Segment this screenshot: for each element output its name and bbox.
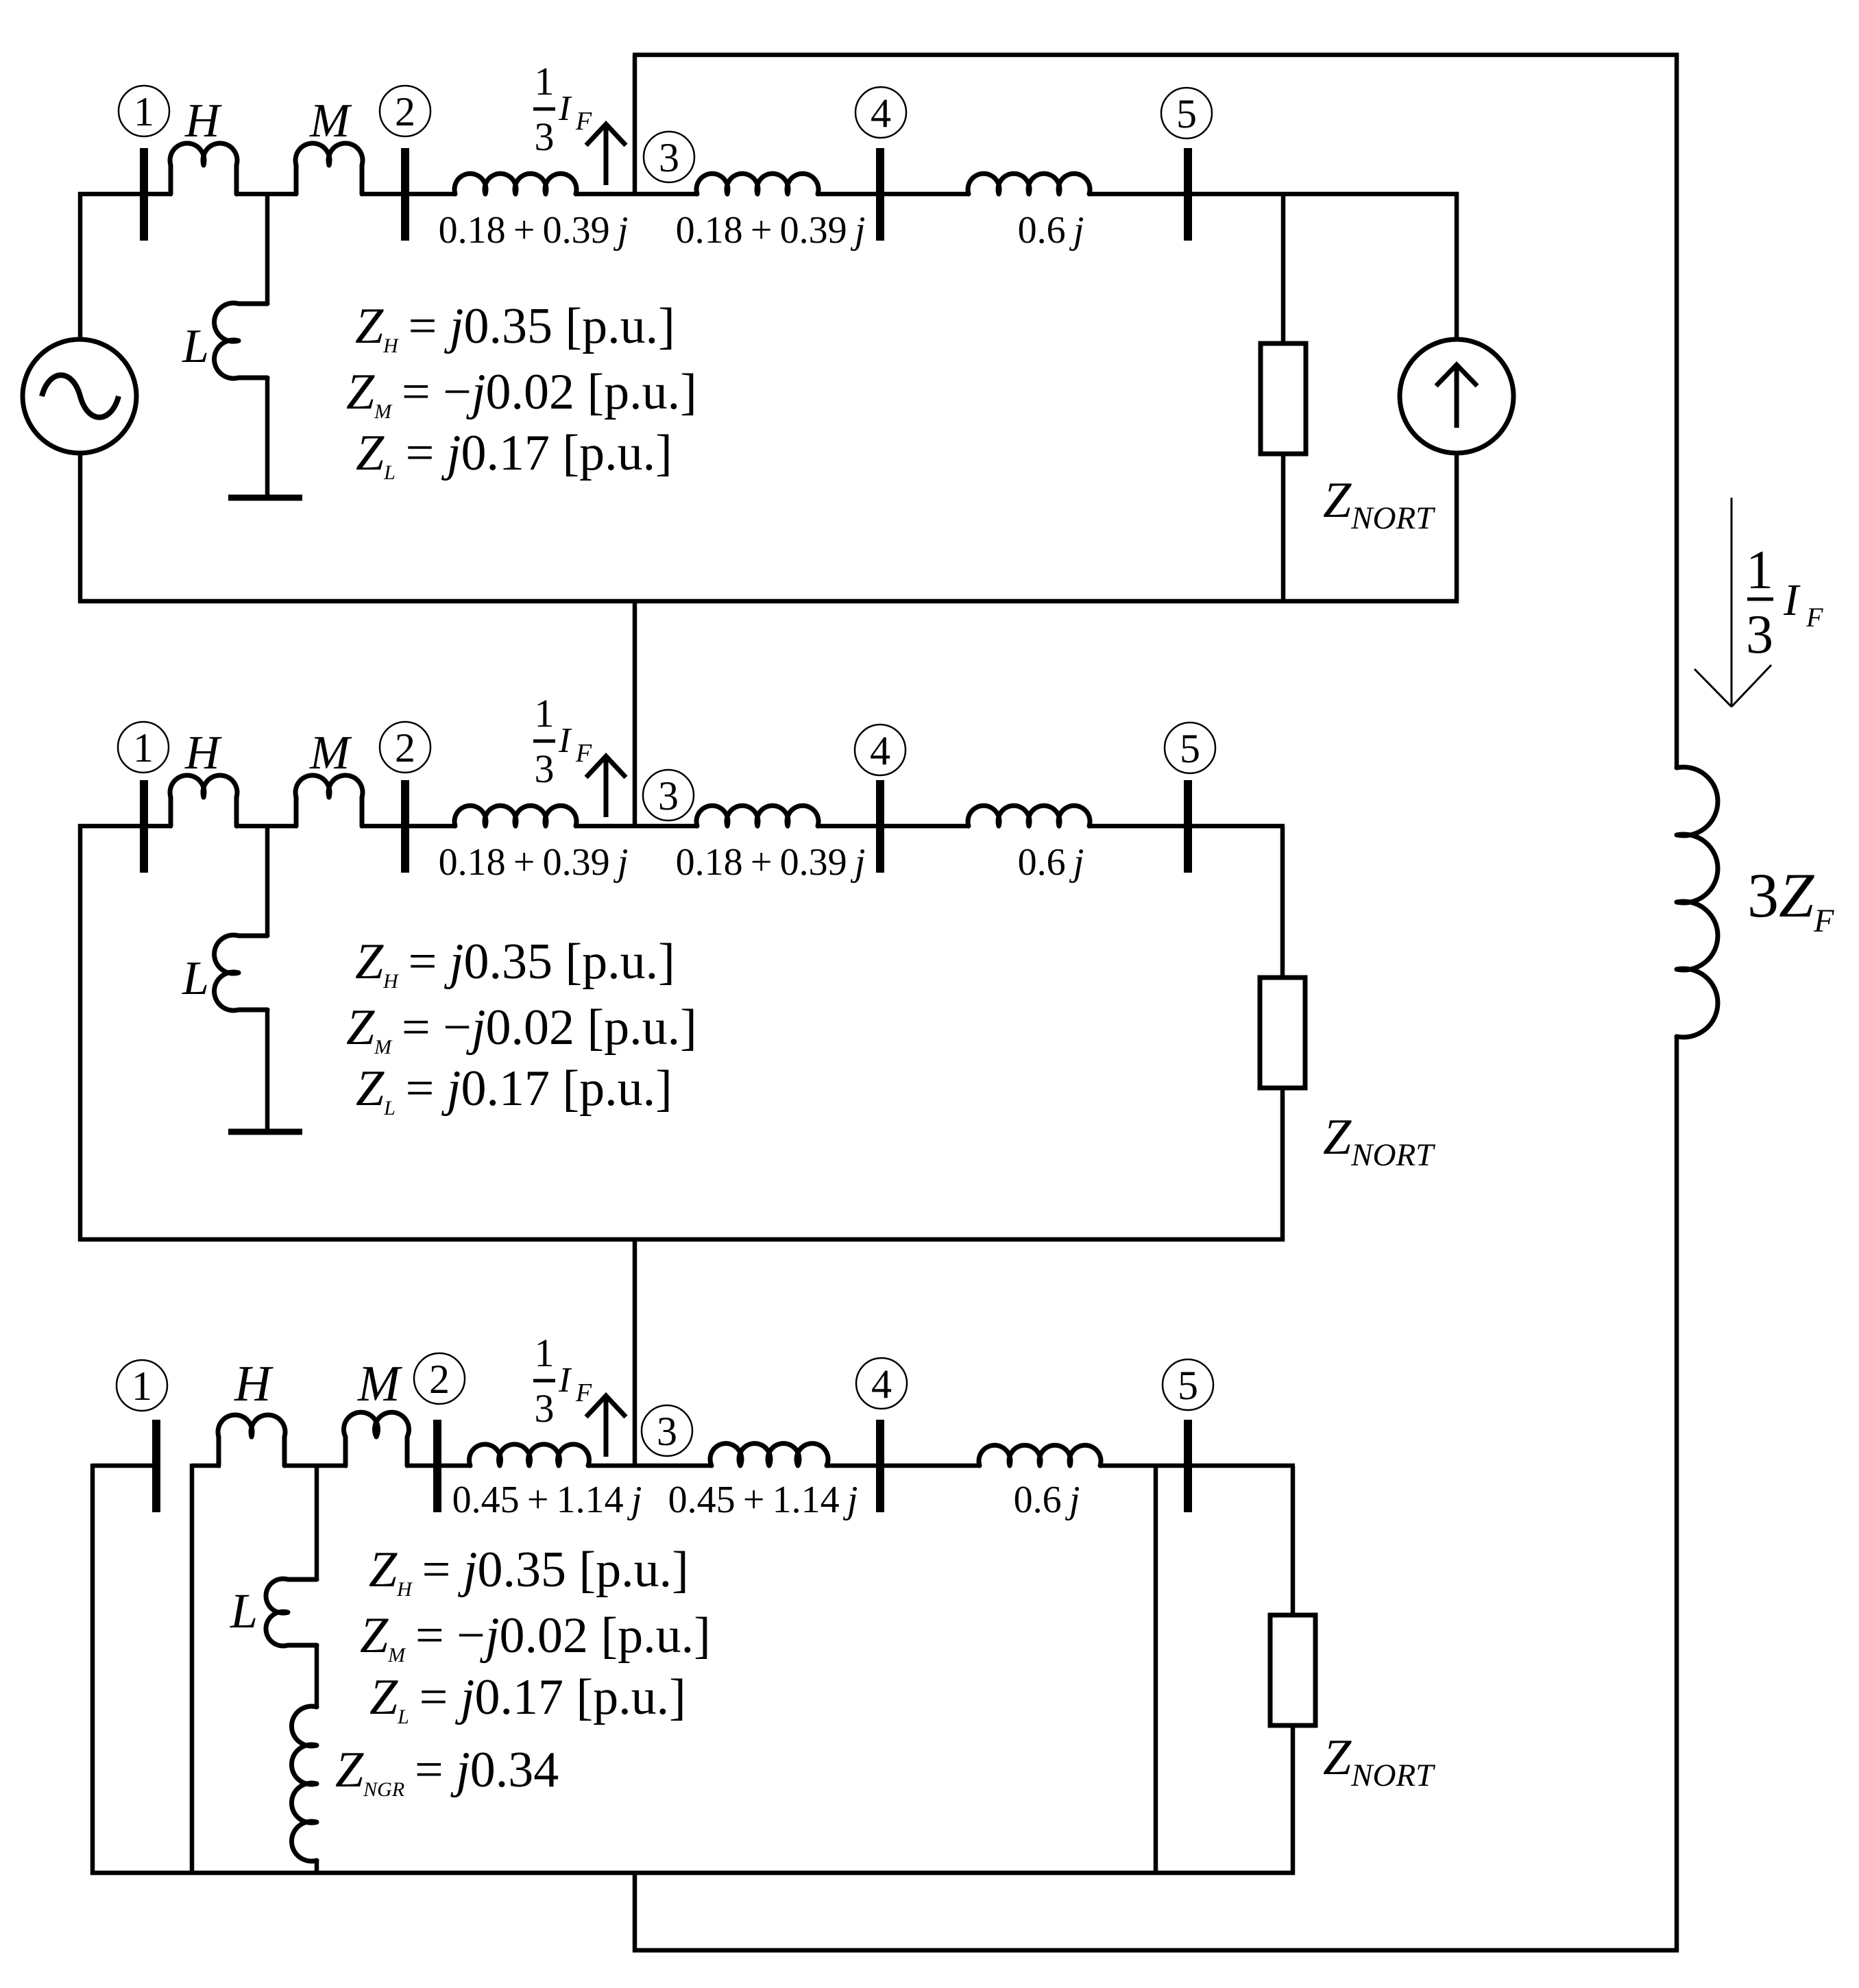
wire: bottom-net bus1 stub (93, 1464, 154, 1468)
bus 5 (top net) (1184, 148, 1192, 241)
wire: top-net right vertical lower (1455, 453, 1459, 603)
wire: fault bus top horizontal (633, 53, 1679, 58)
svg-text:2: 2 (395, 725, 415, 771)
wire: mid-net seg ind-bus5-right (1089, 824, 1285, 829)
svg-text:ZH = j0.35 [p.u.]: ZH = j0.35 [p.u.] (369, 1542, 689, 1601)
inductor line 4-5 (bottom net) 0.6j (979, 1445, 1101, 1466)
node label circled 4 (mid net) (855, 725, 906, 775)
wire: top-net seg ind-bus4-ind (818, 192, 969, 197)
current arrow 1/3 IF (bottom net) (604, 1396, 609, 1457)
svg-text:M: M (309, 727, 352, 779)
node3 link wire top-net to mid-net (633, 601, 637, 828)
wire: bottom-net seg corner-H (192, 1464, 221, 1468)
inductor H (mid net) (170, 775, 237, 826)
inductor line 2-3 (top net) 0.18+0.39j (454, 173, 576, 194)
node label circled 2 (bottom net) (414, 1353, 465, 1404)
bus 2 (bottom net) (433, 1420, 441, 1512)
svg-text:ZH = j0.35 [p.u.]: ZH = j0.35 [p.u.] (355, 298, 675, 357)
svg-text:2: 2 (429, 1357, 450, 1402)
current arrow 1/3 IF (top net) (604, 124, 609, 185)
svg-text:I: I (1783, 575, 1801, 625)
svg-text:0.18 + 0.39 j: 0.18 + 0.39 j (676, 841, 866, 884)
wire: mid-net seg ind-bus4-ind (818, 824, 969, 829)
svg-text:5: 5 (1176, 91, 1197, 136)
svg-text:0.6 j: 0.6 j (1018, 209, 1084, 252)
node label circled 4 (bottom net) (856, 1358, 907, 1409)
node label circled 2 (mid net) (380, 722, 430, 773)
wire: top-net seg ind-node3-ind (576, 192, 698, 197)
wire: mid-net main seg bus1-H (78, 824, 171, 829)
wire: fault return bottom horizontal (633, 1948, 1679, 1953)
current arrow 1/3 IF (mid net) (604, 756, 609, 817)
inductor L (mid net) (215, 935, 267, 1010)
bus 2 (top net) (401, 148, 409, 241)
inductor H (bottom net) (218, 1415, 285, 1466)
node label circled 3 (bottom net) (642, 1405, 692, 1456)
svg-text:5: 5 (1180, 726, 1200, 771)
inductor L (top net transformer winding) (215, 303, 267, 378)
svg-text:0.45 + 1.14 j: 0.45 + 1.14 j (668, 1479, 858, 1521)
svg-text:4: 4 (871, 1361, 892, 1407)
wire: mid-net seg H-M (236, 824, 297, 829)
wire: top-net main wire seg bus1-H (78, 192, 171, 197)
svg-text:3: 3 (657, 1409, 677, 1454)
inductor line 4-5 (mid net) 0.6j (968, 805, 1090, 826)
svg-text:F: F (575, 1379, 592, 1407)
svg-text:L: L (230, 1584, 258, 1638)
wire: bottom-net seg M-bus2-ind (406, 1464, 472, 1468)
current source INORT (top net) (1400, 339, 1514, 453)
svg-text:ZL = j0.17 [p.u.]: ZL = j0.17 [p.u.] (356, 425, 672, 484)
svg-text:0.6 j: 0.6 j (1014, 1479, 1080, 1521)
node label circled 5 (top net) (1161, 88, 1212, 138)
ground (top net) (228, 495, 302, 501)
node label circled 2 (top net) (380, 86, 430, 136)
node label circled 3 (top net) (644, 132, 694, 182)
wire: mid-net L to ground (265, 1008, 270, 1130)
bus 4 (top net) (876, 148, 884, 241)
wire: mid-net seg ind-node3-ind (576, 824, 698, 829)
bus 5 (bottom net) (1184, 1420, 1192, 1512)
svg-text:F: F (575, 107, 592, 136)
inductor line 2-3 (bottom net) 0.45+1.14j (469, 1444, 589, 1466)
svg-text:1: 1 (134, 89, 154, 134)
svg-text:3: 3 (1746, 605, 1773, 665)
wire: bottom-net seg ind-bus5-right (1100, 1464, 1295, 1468)
wire: bottom-net left vertical (90, 1464, 95, 1875)
wire: right edge vertical upper (1675, 53, 1679, 769)
wire: right edge vertical lower (1675, 1035, 1679, 1952)
svg-text:1: 1 (133, 725, 154, 771)
wire: bottom-net L to ZNGR (315, 1644, 319, 1708)
resistor ZNORT (top net) (1261, 343, 1306, 454)
bus 1 (bottom net) (152, 1420, 160, 1512)
svg-text:M: M (357, 1356, 403, 1412)
bus 1 (mid net) (140, 780, 148, 873)
node 3 (top net) riser to fault bus (633, 55, 637, 194)
wire: top-net junction vertical to L (265, 194, 270, 304)
wire: mid-net seg M-bus2-ind (361, 824, 456, 829)
wire: bottom-net seg ind-bus4-ind (827, 1464, 980, 1468)
inductor line 2-3 (mid net) 0.18+0.39j (454, 805, 576, 826)
svg-text:3: 3 (535, 114, 555, 159)
svg-text:L: L (182, 952, 209, 1005)
inductor 3ZF (fault impedance) (1677, 767, 1718, 1037)
wire: mid-net right vertical lower (1280, 1088, 1285, 1241)
wire: mid-net right vertical upper (1280, 826, 1285, 979)
inductor M (mid net) (295, 775, 363, 826)
svg-text:1: 1 (132, 1363, 152, 1409)
wire: top-net ZNORT branch lower (1281, 454, 1286, 601)
svg-text:3: 3 (658, 773, 679, 819)
svg-text:4: 4 (870, 728, 890, 773)
svg-text:4: 4 (871, 90, 891, 136)
inductor L (bottom net) (266, 1579, 317, 1646)
wire: bottom-net junction vertical to L (315, 1466, 319, 1581)
wire: mid-net left vertical (78, 824, 83, 1241)
bus 4 (mid net) (876, 780, 884, 873)
node label circled 5 (mid net) (1165, 723, 1215, 773)
inductor line 4-5 (top net) 0.6j (968, 173, 1090, 194)
svg-text:F: F (1806, 602, 1823, 633)
svg-text:0.18 + 0.39 j: 0.18 + 0.39 j (439, 209, 629, 252)
wire: fault return drop from bottom-net ground bus (633, 1873, 637, 1952)
bus 1 (top net) (140, 148, 148, 241)
inductor ZNGR (bottom net neutral grounding reactor) (291, 1706, 317, 1861)
inductor line 3-4 (top net) 0.18+0.39j (696, 173, 818, 194)
svg-text:3: 3 (535, 1386, 555, 1431)
wire: bottom-net seg ind-node3-ind (588, 1464, 713, 1468)
wire: bottom-net seg H-M with junction (284, 1464, 348, 1468)
wire: top-net left vertical upper (78, 192, 83, 340)
svg-text:ZL = j0.17 [p.u.]: ZL = j0.17 [p.u.] (369, 1669, 686, 1728)
svg-text:ZM = −j0.02 [p.u.]: ZM = −j0.02 [p.u.] (346, 364, 697, 423)
node label circled 1 (top net) (119, 86, 169, 136)
node3 link wire mid-net to bottom-net (633, 1239, 637, 1468)
svg-text:1: 1 (535, 691, 555, 736)
svg-text:0.6 j: 0.6 j (1018, 841, 1084, 884)
svg-text:ZH = j0.35 [p.u.]: ZH = j0.35 [p.u.] (355, 934, 675, 993)
svg-text:H: H (184, 727, 222, 779)
wire: mid-net bottom wire (78, 1237, 1285, 1242)
svg-text:3: 3 (535, 747, 555, 791)
inductor line 3-4 (mid net) 0.18+0.39j (696, 805, 818, 826)
node label circled 4 (top net) (855, 87, 906, 138)
resistor ZNORT (mid net) (1260, 978, 1305, 1088)
svg-text:ZL = j0.17 [p.u.]: ZL = j0.17 [p.u.] (356, 1060, 672, 1119)
wire: bottom-net ZNGR to bottom (315, 1859, 319, 1875)
svg-text:2: 2 (395, 89, 415, 134)
wire: top-net seg ind-bus5-right (1089, 192, 1459, 197)
svg-text:0.18 + 0.39 j: 0.18 + 0.39 j (676, 209, 866, 252)
inductor M (bottom net) (344, 1412, 409, 1466)
svg-text:F: F (575, 739, 592, 768)
svg-text:0.18 + 0.39 j: 0.18 + 0.39 j (439, 841, 629, 884)
svg-text:M: M (309, 95, 352, 147)
wire: top-net ZNORT branch upper (1281, 194, 1286, 345)
wire: mid-net junction vertical to L (265, 826, 270, 936)
svg-text:I: I (558, 1361, 572, 1400)
node label circled 5 (bottom net) (1163, 1359, 1213, 1410)
ground (mid net) (228, 1129, 302, 1135)
svg-text:0.45 + 1.14 j: 0.45 + 1.14 j (452, 1479, 642, 1521)
svg-text:3: 3 (659, 135, 679, 180)
svg-text:1: 1 (535, 59, 555, 104)
inductor H (top net transformer winding) (170, 143, 237, 194)
bus 4 (bottom net) (876, 1420, 884, 1512)
wire: top-net bottom wire (78, 599, 1459, 604)
wire: top-net L to ground (265, 376, 270, 496)
wire: bottom-net second vertical (190, 1464, 195, 1875)
bus 2 (mid net) (401, 780, 409, 873)
svg-text:L: L (182, 320, 209, 373)
svg-text:I: I (558, 721, 572, 760)
node label circled 3 (mid net) (643, 770, 694, 821)
svg-text:ZM = −j0.02 [p.u.]: ZM = −j0.02 [p.u.] (360, 1608, 711, 1666)
svg-text:1: 1 (535, 1331, 555, 1375)
AC source V1 (positive-sequence source) (23, 339, 136, 453)
svg-text:H: H (234, 1356, 274, 1412)
svg-text:I: I (558, 89, 572, 128)
bus 5 (mid net) (1184, 780, 1192, 873)
wire: bottom-net bottom wire (90, 1871, 1295, 1876)
svg-text:5: 5 (1178, 1363, 1198, 1408)
resistor ZNORT (bottom net) (1270, 1615, 1315, 1725)
wire: top-net right vertical upper (1455, 192, 1459, 340)
svg-text:ZM = −j0.02 [p.u.]: ZM = −j0.02 [p.u.] (346, 999, 697, 1058)
svg-text:1: 1 (1746, 540, 1773, 601)
node label circled 1 (mid net) (118, 722, 169, 773)
wire: top-net seg H-M with junction (236, 192, 297, 197)
inductor line 3-4 (bottom net) 0.45+1.14j (710, 1444, 828, 1466)
wire: bottom-net bus5-left vertical (1154, 1466, 1158, 1875)
wire: bottom-net ZNORT branch lower (1291, 1725, 1296, 1875)
current annotation arrow 1/3 IF (right side, open head) (1731, 498, 1733, 706)
wire: top-net seg M-bus2-ind (361, 192, 456, 197)
inductor M (top net transformer winding) (295, 143, 363, 194)
svg-text:H: H (184, 95, 222, 147)
node label circled 1 (bottom net) (117, 1360, 167, 1411)
wire: top-net left vertical lower (78, 453, 83, 603)
wire: bottom-net ZNORT branch upper (1291, 1466, 1296, 1616)
